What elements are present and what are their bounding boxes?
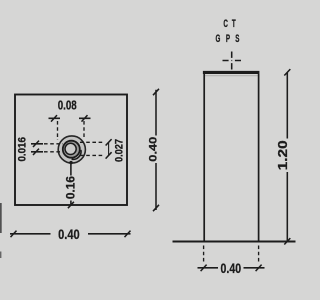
svg-text:0.40: 0.40 [58, 226, 80, 242]
svg-text:S: S [235, 32, 239, 44]
svg-text:P: P [226, 32, 230, 44]
svg-text:0.016: 0.016 [17, 137, 29, 162]
svg-text:T: T [232, 17, 236, 29]
svg-text:0.40: 0.40 [147, 137, 159, 162]
svg-text:1.20: 1.20 [276, 140, 290, 170]
svg-text:0.027: 0.027 [114, 139, 126, 162]
svg-text:0.08: 0.08 [58, 98, 77, 113]
svg-text:0.40: 0.40 [221, 260, 242, 276]
svg-text:C: C [223, 17, 228, 29]
svg-text:0.16: 0.16 [63, 176, 77, 199]
svg-text:G: G [215, 32, 220, 44]
